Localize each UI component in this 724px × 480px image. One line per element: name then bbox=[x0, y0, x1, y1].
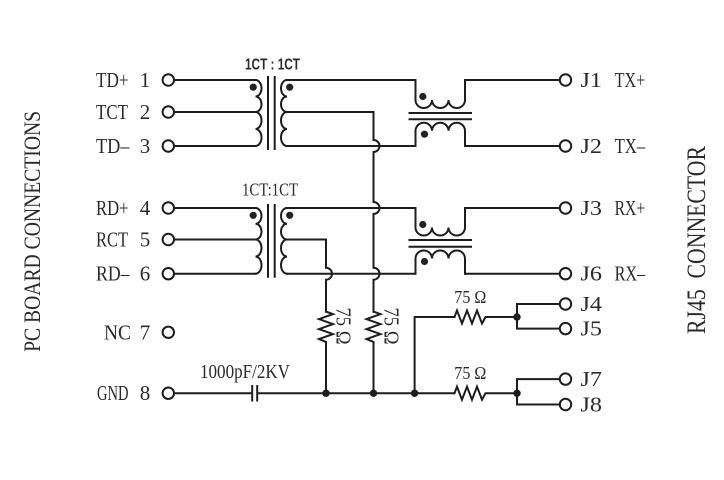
svg-text:75 Ω: 75 Ω bbox=[454, 363, 486, 383]
transformer T1 primary winding bbox=[256, 80, 262, 146]
pin 8 terminal circle (GND) bbox=[163, 388, 174, 399]
wire pin5 to T2 primary center tap bbox=[175, 239, 256, 241]
choke L2 core bbox=[410, 240, 472, 247]
terminal J2 circle bbox=[560, 140, 571, 151]
resistor 75R (RCT termination) bbox=[319, 312, 333, 394]
wire T1 secondary center tap bbox=[287, 111, 374, 113]
label J3 RX+ bbox=[581, 196, 646, 220]
pin 4 terminal circle bbox=[163, 202, 174, 213]
svg-text:3: 3 bbox=[140, 134, 151, 158]
transformer T2 secondary winding bbox=[281, 208, 287, 274]
svg-text:J7: J7 bbox=[581, 367, 603, 391]
label J7 bbox=[581, 367, 603, 391]
resistor 75R (J4/J5 termination) bbox=[455, 311, 518, 324]
pin 4 label RD+ bbox=[96, 196, 151, 220]
svg-text:1CT:1CT: 1CT:1CT bbox=[242, 180, 298, 200]
wire bracket to J7 and J8 bbox=[517, 379, 560, 404]
svg-text:5: 5 bbox=[140, 228, 151, 252]
choke L1 bottom winding bbox=[416, 123, 466, 146]
svg-text:2: 2 bbox=[140, 100, 151, 124]
choke L1 top polarity dot bbox=[419, 93, 426, 100]
transformer T1 secondary polarity dot bbox=[286, 84, 293, 91]
svg-text:PC BOARD CONNECTIONS: PC BOARD CONNECTIONS bbox=[20, 111, 45, 352]
svg-text:7: 7 bbox=[140, 320, 151, 344]
wire T2 secondary bottom to choke L2 bbox=[287, 273, 416, 275]
capacitor C1 1000pF/2KV plates bbox=[252, 386, 257, 401]
label J1 TX+ bbox=[581, 68, 646, 92]
transformer T2 primary winding bbox=[256, 208, 262, 274]
terminal J4 circle bbox=[560, 298, 571, 309]
pin 6 terminal circle bbox=[163, 268, 174, 279]
transformer T1 secondary winding bbox=[281, 80, 287, 146]
junction dot TCT resistor to GND bus bbox=[370, 390, 377, 397]
terminal J1 circle bbox=[560, 74, 571, 85]
svg-text:TD–: TD– bbox=[96, 134, 130, 158]
svg-text:RCT: RCT bbox=[96, 228, 128, 252]
svg-text:TD+: TD+ bbox=[96, 68, 129, 92]
pin 1 label TD+ bbox=[96, 68, 150, 92]
transformer T2 secondary polarity dot bbox=[286, 212, 293, 219]
pin 7 terminal circle (NC) bbox=[163, 327, 174, 338]
choke L2 top winding bbox=[416, 208, 466, 236]
svg-text:75 Ω: 75 Ω bbox=[331, 308, 355, 345]
junction dot J4/J5 node bbox=[513, 313, 520, 320]
svg-text:RD–: RD– bbox=[96, 262, 130, 286]
wire choke L2 bottom to J6 bbox=[465, 273, 560, 275]
junction dot branch to upper resistor bbox=[411, 390, 418, 397]
choke L1 bottom polarity dot bbox=[421, 131, 428, 138]
pin 3 label TD- bbox=[96, 134, 150, 158]
wire RCT net vertical drop with crossover hop bbox=[326, 240, 332, 312]
pin 5 terminal circle bbox=[163, 234, 174, 245]
wire pin3 to T1 primary bottom bbox=[175, 145, 256, 147]
pin 7 label NC bbox=[104, 320, 150, 344]
svg-text:J5: J5 bbox=[581, 317, 603, 341]
pin 2 label TCT bbox=[96, 100, 150, 124]
svg-text:75 Ω: 75 Ω bbox=[379, 308, 403, 345]
svg-text:1000pF/2KV: 1000pF/2KV bbox=[200, 361, 290, 383]
wire pin6 to T2 primary bottom bbox=[175, 273, 256, 275]
wire T2 secondary top to choke L2 bbox=[287, 207, 416, 209]
label J2 TX- bbox=[581, 134, 646, 158]
svg-text:4: 4 bbox=[140, 196, 151, 220]
label J5 bbox=[581, 317, 603, 341]
svg-text:6: 6 bbox=[140, 262, 151, 286]
wire pin4 to T2 primary top bbox=[175, 207, 256, 209]
wire T2 secondary center tap bbox=[287, 239, 326, 241]
svg-text:RX+: RX+ bbox=[615, 196, 646, 220]
wire choke L1 top to J1 bbox=[465, 79, 560, 81]
svg-text:NC: NC bbox=[104, 320, 131, 344]
wire choke L1 bottom to J2 bbox=[465, 145, 560, 147]
svg-text:J8: J8 bbox=[581, 393, 603, 417]
label J4 bbox=[581, 292, 603, 316]
svg-text:1: 1 bbox=[140, 68, 151, 92]
wire pin2 to T1 primary center tap bbox=[175, 111, 256, 113]
wire capacitor to GND bus bbox=[258, 392, 454, 394]
svg-text:RJ45 CONNECTOR: RJ45 CONNECTOR bbox=[682, 145, 711, 334]
wire bracket to J4 and J5 bbox=[517, 304, 560, 329]
resistor 75R (TCT termination) bbox=[367, 312, 381, 394]
resistor 75R (J7/J8 termination) on GND bus bbox=[455, 387, 518, 400]
wire pin1 to T1 primary top bbox=[175, 79, 256, 81]
terminal J5 circle bbox=[560, 323, 571, 334]
svg-text:J4: J4 bbox=[581, 292, 603, 316]
transformer T1 core bbox=[268, 77, 275, 149]
svg-text:8: 8 bbox=[140, 381, 151, 405]
wire branch up to upper 75R bbox=[415, 317, 455, 393]
svg-text:J3: J3 bbox=[581, 196, 603, 220]
pin 6 label RD- bbox=[96, 262, 150, 286]
transformer T1 primary polarity dot bbox=[250, 84, 257, 91]
terminal J7 circle bbox=[560, 373, 571, 384]
junction dot J7/J8 node bbox=[513, 390, 520, 397]
pin 8 label GND bbox=[97, 381, 150, 405]
svg-text:RD+: RD+ bbox=[96, 196, 129, 220]
wire T1 secondary top to choke L1 bbox=[287, 79, 416, 81]
label J6 RX- bbox=[581, 262, 646, 286]
pin 3 terminal circle bbox=[163, 140, 174, 151]
transformer T2 primary polarity dot bbox=[250, 212, 257, 219]
pin 2 terminal circle bbox=[163, 106, 174, 117]
svg-text:RX–: RX– bbox=[615, 262, 646, 286]
svg-text:GND: GND bbox=[97, 381, 129, 405]
terminal J8 circle bbox=[560, 399, 571, 410]
choke L1 core bbox=[410, 113, 472, 119]
svg-text:TCT: TCT bbox=[96, 100, 128, 124]
wire TCT net vertical drop with crossover hops bbox=[374, 112, 380, 312]
wire choke L2 top to J3 bbox=[465, 207, 560, 209]
wire GND pin to capacitor bbox=[175, 392, 252, 394]
terminal J6 circle bbox=[560, 268, 571, 279]
svg-text:J1: J1 bbox=[581, 68, 603, 92]
label J8 bbox=[581, 393, 603, 417]
choke L2 top polarity dot bbox=[419, 221, 426, 228]
svg-text:J6: J6 bbox=[581, 262, 603, 286]
svg-text:75 Ω: 75 Ω bbox=[454, 287, 486, 307]
terminal J3 circle bbox=[560, 202, 571, 213]
wire T1 secondary bottom to choke L1 bbox=[287, 145, 416, 147]
pin 5 label RCT bbox=[96, 228, 150, 252]
svg-text:1CT : 1CT: 1CT : 1CT bbox=[245, 57, 300, 74]
svg-text:J2: J2 bbox=[581, 134, 603, 158]
svg-text:TX–: TX– bbox=[615, 134, 646, 158]
transformer T2 core bbox=[268, 205, 275, 277]
choke L1 top winding bbox=[416, 80, 466, 108]
choke L2 bottom winding bbox=[416, 251, 466, 274]
choke L2 bottom polarity dot bbox=[421, 258, 428, 265]
junction dot RCT resistor to GND bus bbox=[322, 390, 329, 397]
svg-text:TX+: TX+ bbox=[615, 68, 646, 92]
pin 1 terminal circle bbox=[163, 74, 174, 85]
